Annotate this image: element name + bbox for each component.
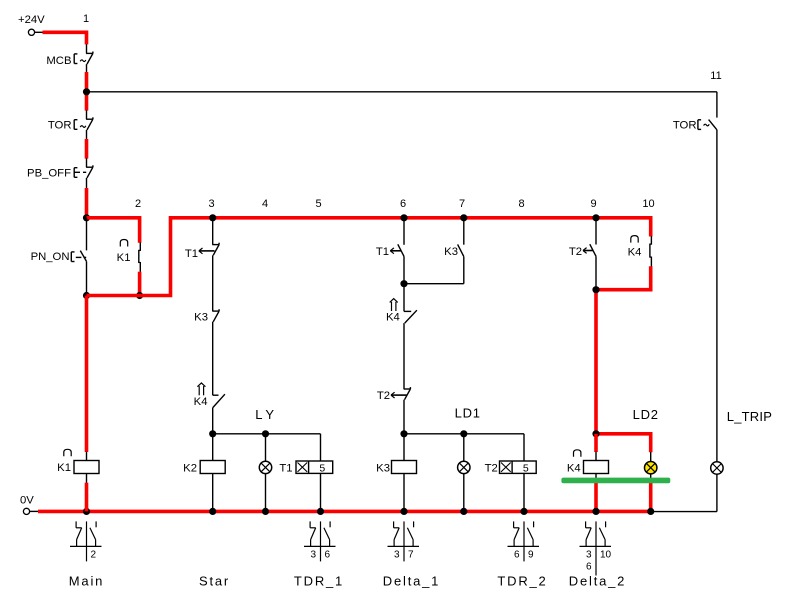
- junction: [209, 430, 216, 437]
- wire: [403, 256, 405, 283]
- wire: [265, 434, 267, 462]
- lamp LD1 label: [455, 406, 481, 421]
- lamp L_TRIP: [711, 462, 723, 474]
- svg-text:Main: Main: [69, 574, 104, 589]
- contact K3 NC star: [194, 309, 219, 323]
- wire: [650, 474, 652, 484]
- wire: [403, 434, 405, 461]
- wire: [523, 473, 525, 511]
- svg-text:LD1: LD1: [455, 406, 481, 421]
- crossref TDR_1: [304, 521, 336, 561]
- svg-text:11: 11: [710, 70, 721, 82]
- node 4 label: [262, 198, 268, 210]
- svg-text:PN_ON: PN_ON: [31, 251, 70, 263]
- node 8 label: [518, 198, 524, 210]
- node +24V supply terminal: [18, 14, 45, 35]
- junction 0V Main: [83, 508, 90, 515]
- timer T2: [485, 461, 537, 475]
- wire: [212, 474, 214, 512]
- wire: [212, 255, 214, 311]
- wire: [463, 474, 465, 512]
- wire merge: [404, 283, 464, 285]
- svg-text:6: 6: [400, 198, 406, 210]
- svg-text:0V: 0V: [20, 495, 34, 507]
- svg-text:3: 3: [208, 198, 214, 210]
- svg-text:T2: T2: [569, 246, 582, 258]
- junction: [136, 292, 143, 299]
- wire 0V rail: [38, 510, 651, 514]
- wire red below LD2: [649, 483, 653, 511]
- svg-text:9: 9: [590, 198, 596, 210]
- contact K4 NC forced open delta1: [386, 284, 417, 389]
- wire: [320, 473, 322, 511]
- wire: [403, 218, 405, 245]
- wire red below K4: [594, 483, 598, 512]
- svg-text:Delta_1: Delta_1: [383, 574, 440, 589]
- svg-text:10: 10: [600, 550, 612, 561]
- svg-text:PB_OFF: PB_OFF: [27, 168, 71, 180]
- svg-text:5: 5: [319, 463, 325, 475]
- coil K2: [183, 461, 225, 475]
- junction: [262, 430, 269, 437]
- wire: [650, 452, 652, 461]
- contact T2 NC delta1: [377, 387, 411, 402]
- svg-text:K1: K1: [57, 462, 71, 474]
- lamp LD1: [458, 461, 470, 473]
- wire: [85, 139, 89, 159]
- junction 0V K4: [592, 508, 599, 515]
- junction: [83, 88, 90, 95]
- svg-text:L_TRIP: L_TRIP: [727, 409, 772, 424]
- svg-text:3: 3: [586, 550, 592, 561]
- svg-text:T2: T2: [485, 463, 498, 475]
- contact K1: [117, 240, 141, 272]
- wire: [595, 452, 597, 461]
- wire rung2 top: [87, 218, 140, 243]
- svg-text:2: 2: [135, 198, 141, 210]
- wire red K1 branch: [85, 296, 89, 453]
- junction node 2 rail: [83, 214, 90, 221]
- coil K3: [376, 461, 416, 475]
- svg-text:T2: T2: [377, 390, 390, 402]
- label TDR_2: [497, 574, 547, 589]
- svg-text:TDR_1: TDR_1: [294, 574, 344, 589]
- wire +24V feed: [43, 32, 87, 44]
- svg-text:K3: K3: [194, 312, 208, 324]
- svg-text:4: 4: [262, 198, 268, 210]
- svg-text:7: 7: [459, 198, 465, 210]
- junction 0V T1: [317, 508, 324, 515]
- coil K1: [57, 449, 99, 474]
- junction 0V T2: [520, 508, 527, 515]
- junction: [83, 292, 90, 299]
- wire: [403, 474, 405, 512]
- label TDR_1: [294, 574, 344, 589]
- junction: [400, 280, 407, 287]
- svg-text:TOR: TOR: [673, 120, 697, 132]
- svg-text:T1: T1: [185, 248, 198, 260]
- lamp LD2 label: [633, 407, 659, 422]
- svg-text:K4: K4: [567, 463, 581, 475]
- svg-text:3: 3: [310, 550, 316, 561]
- wire: [86, 452, 88, 461]
- svg-text:T1: T1: [376, 246, 389, 258]
- highlight selection bar: [561, 478, 670, 484]
- svg-text:7: 7: [408, 550, 414, 561]
- crossref TDR_2: [508, 521, 540, 561]
- svg-text:K4: K4: [386, 312, 400, 324]
- pushbutton PN_ON: [31, 218, 87, 296]
- wire: [85, 188, 89, 218]
- svg-text:LD2: LD2: [633, 407, 659, 422]
- svg-text:6: 6: [586, 562, 592, 573]
- lamp LY: [259, 461, 271, 473]
- svg-text:K2: K2: [183, 463, 197, 475]
- wire: [716, 130, 718, 462]
- svg-text:TOR: TOR: [48, 120, 72, 132]
- svg-text:1: 1: [83, 13, 89, 25]
- wire: [212, 434, 214, 461]
- lamp LD2: [645, 462, 657, 474]
- svg-text:8: 8: [518, 198, 524, 210]
- node 10 label: [642, 198, 654, 210]
- crossref Delta_2: [580, 521, 612, 575]
- node 3 label: [208, 198, 214, 210]
- wire delta2 red path: [596, 266, 651, 452]
- contact TOR NO trip: [673, 92, 717, 132]
- node 0V supply terminal: [20, 495, 39, 515]
- contact K3 NO delta1: [444, 218, 464, 284]
- svg-text:MCB: MCB: [46, 55, 71, 67]
- junction 0V LD2: [647, 508, 654, 515]
- junction node 3: [209, 214, 216, 221]
- contact T2 NO delta2: [569, 218, 596, 290]
- svg-text:3: 3: [394, 550, 400, 561]
- contact K4 NO delta2: [628, 236, 652, 267]
- wire: [595, 474, 597, 479]
- node 11 label: [710, 70, 721, 82]
- junction 0V K2: [209, 508, 216, 515]
- breaker TOR: [48, 110, 93, 139]
- svg-text:5: 5: [523, 463, 529, 475]
- svg-text:5: 5: [315, 198, 321, 210]
- junction 0V K3: [400, 508, 407, 515]
- junction node 7: [460, 214, 467, 221]
- svg-text:TDR_2: TDR_2: [497, 574, 547, 589]
- wire: [716, 474, 718, 511]
- pushbutton PB_OFF: [27, 158, 93, 188]
- label Main: [69, 574, 104, 589]
- svg-text:Delta_2: Delta_2: [569, 574, 626, 589]
- lamp LY label: [255, 407, 274, 422]
- wire: [86, 474, 88, 484]
- label Delta_2: [569, 574, 626, 589]
- junction: [400, 430, 407, 437]
- node 6 label: [400, 198, 406, 210]
- label Star: [199, 574, 230, 589]
- crossref Main: [70, 521, 102, 561]
- coil K4: [567, 450, 609, 475]
- junction: [592, 286, 599, 293]
- junction node 9: [592, 214, 599, 221]
- label Delta_1: [383, 574, 440, 589]
- node 1 label: [83, 13, 89, 25]
- junction: [460, 430, 467, 437]
- wire main rail: [87, 218, 651, 296]
- svg-text:6: 6: [325, 550, 331, 561]
- node 5 label: [315, 198, 321, 210]
- svg-text:K4: K4: [194, 396, 208, 408]
- wire branch row star: [213, 434, 321, 461]
- wire red below K1: [85, 483, 89, 512]
- svg-text:L Y: L Y: [255, 407, 274, 422]
- timer T1: [279, 461, 332, 475]
- svg-text:K3: K3: [444, 246, 458, 258]
- contact T1 NC star: [185, 243, 219, 260]
- svg-text:6: 6: [514, 550, 520, 561]
- wire: [85, 72, 89, 111]
- svg-text:K1: K1: [117, 252, 131, 264]
- svg-text:+24V: +24V: [18, 14, 45, 26]
- wire: [212, 322, 214, 396]
- node 9 label: [590, 198, 596, 210]
- junction: [592, 430, 599, 437]
- wire: [403, 400, 405, 434]
- wire: [212, 218, 214, 245]
- svg-text:2: 2: [91, 550, 97, 561]
- contact T1 NO delta1: [376, 244, 404, 258]
- contact K4 NC forced open: [194, 383, 225, 434]
- wire: [651, 511, 717, 513]
- crossref Delta_1: [388, 521, 420, 561]
- wire to node 11: [87, 91, 717, 93]
- junction node 6: [400, 214, 407, 221]
- wire: [463, 434, 465, 462]
- wire K1 lower: [138, 272, 142, 296]
- wire: [594, 434, 598, 452]
- svg-text:10: 10: [642, 198, 654, 210]
- breaker MCB: [46, 44, 93, 72]
- node 7 label: [459, 198, 465, 210]
- junction 0V LY: [262, 508, 269, 515]
- svg-text:9: 9: [528, 550, 534, 561]
- junction 0V LD1: [460, 508, 467, 515]
- svg-text:T1: T1: [279, 463, 292, 475]
- svg-text:K3: K3: [376, 463, 390, 475]
- lamp L_TRIP label: [727, 409, 772, 424]
- wire branch row delta1: [404, 434, 524, 461]
- svg-text:K4: K4: [628, 247, 642, 259]
- svg-text:Star: Star: [199, 574, 230, 589]
- wire: [265, 474, 267, 512]
- node 2 label: [135, 198, 141, 210]
